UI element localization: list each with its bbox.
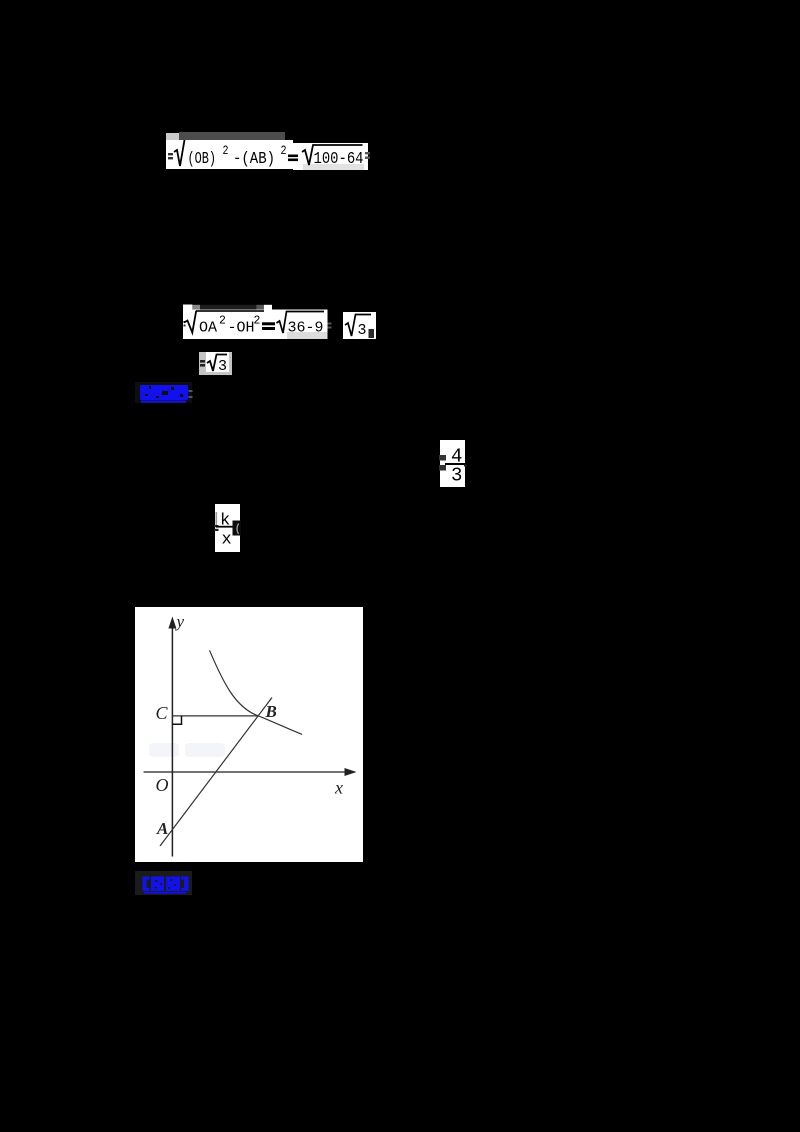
svg-text:2: 2: [281, 143, 287, 158]
svg-text:(OB): (OB): [188, 150, 217, 169]
formula image: fraction k/x: [213, 502, 242, 554]
formula image: sqrt(3) small: [199, 351, 233, 375]
y axis: [171, 625, 173, 857]
svg-text:x: x: [222, 531, 232, 550]
right angle mark: [172, 716, 181, 724]
hyperbola: [210, 650, 303, 734]
link label (blue bold CJK, pixelated) #2: [135, 871, 193, 896]
svg-text:2: 2: [254, 315, 261, 328]
svg-text:3: 3: [451, 465, 462, 487]
CB segment: [172, 715, 257, 717]
sqrt3 with comma box: [343, 312, 376, 339]
svg-text:k: k: [220, 512, 230, 531]
svg-text:A: A: [156, 819, 168, 838]
svg-text:2: 2: [223, 143, 229, 158]
svg-text:-OH: -OH: [228, 320, 255, 337]
svg-text:OA: OA: [199, 320, 217, 337]
formula image: fraction 4/3: [437, 438, 468, 489]
formula image: sqrt(OA^2-OH^2)=sqrt(36-9)=sqrt(3): [180, 300, 380, 342]
link label (blue bold CJK, pixelated) #1: [135, 382, 195, 404]
svg-text:y: y: [175, 612, 185, 631]
svg-text:2: 2: [219, 315, 226, 328]
svg-text:O: O: [156, 775, 169, 795]
svg-text:3: 3: [218, 358, 227, 375]
formula image: sqrt((OB)^2-(AB)^2)=sqrt(100-64): [160, 128, 378, 174]
faint watermark: [149, 743, 225, 757]
svg-text:3: 3: [358, 322, 367, 339]
x axis: [144, 771, 350, 773]
line AB: [160, 698, 272, 847]
svg-text:100-64: 100-64: [314, 150, 364, 169]
svg-text:x: x: [334, 778, 343, 798]
graph figure: [135, 607, 363, 862]
svg-text:-(AB): -(AB): [233, 150, 275, 169]
svg-text:C: C: [156, 703, 169, 723]
